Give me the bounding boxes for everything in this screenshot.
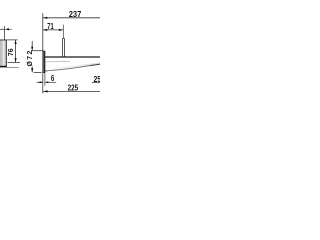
svg-text:25: 25 [94,74,101,84]
dim diameter 72 bottom extension tick [34,71,42,73]
dim 225 left arrow [43,90,47,92]
left view upper edge line [4,26,6,40]
dim 237 dimension line [43,17,101,19]
spout top edge [45,56,101,58]
dim 237 left arrow [43,17,47,19]
diverter rod on spout [63,39,65,57]
dim 71 dimension line [43,29,64,31]
left view plate bottom edge [0,66,7,68]
svg-text:6: 6 [51,75,55,83]
svg-text:76: 76 [7,48,15,56]
svg-text:225: 225 [68,83,79,93]
plate bottom tick [45,70,47,72]
dim 6 right arrow pointing left [45,81,49,83]
dim 25 line (cropped at right edge) [92,82,101,84]
spout inner shading line [45,60,70,63]
dim 76 top extension line [0,39,18,41]
left view plate top edge [0,39,7,41]
dim 6 dimension line right tail [45,81,56,83]
dim 6 left arrow pointing right [40,81,44,83]
left view plate right edge [5,40,7,67]
spout soft shading band above underside [52,63,100,68]
dim 6 right extension line [44,73,46,86]
dim 71 right arrow [59,29,63,31]
cropped dimension line at upper left [0,28,5,30]
left view plate body (cropped at image edge) [0,40,7,67]
dim diameter 72 upper segment with down arrow [31,41,33,51]
svg-text:237: 237 [69,9,82,19]
escutcheon plate side view [42,51,44,73]
dim diameter 72 lower segment with down arrow [31,67,33,73]
svg-text:Ø72: Ø72 [27,51,34,67]
dim 225 dimension line [43,90,101,92]
dim 71 left arrow [43,29,47,31]
cropped dimension arrow pointing left at x=4.6 [5,28,9,30]
dim diameter 72 top extension line [31,50,43,52]
dim 71 right extension line [62,25,64,39]
svg-text:71: 71 [47,24,54,32]
dim 76 dimension line [15,40,17,62]
spout underside edge [45,64,101,71]
dim 76 bottom arrow [15,58,17,62]
dim 76 top arrow [15,40,17,44]
left view shadow line right of plate bottom [7,66,19,68]
dim 6 dimension line left tail [37,81,43,83]
wall extension line [42,13,44,93]
dim 76 bottom extension line [8,61,20,63]
